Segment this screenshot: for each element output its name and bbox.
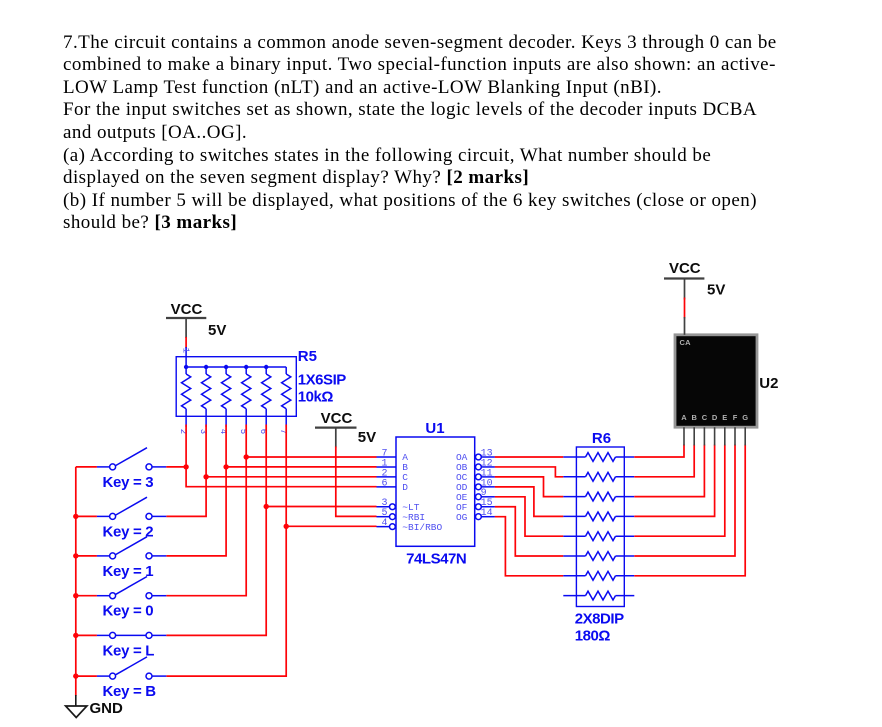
wire net C vertical: R5 pin3 down to Key2	[166, 425, 206, 517]
pin 12 output OB	[476, 464, 482, 470]
power symbol VCC (display anode)	[664, 260, 704, 278]
wire net A to U1 pin7	[246, 456, 376, 458]
wire Key3 to net D	[166, 466, 186, 468]
op-chip U1 74LS47N BCD to seven-segment decoder	[377, 437, 495, 546]
svg-text:Key = B: Key = B	[103, 683, 157, 700]
wire net A vertical: R5 pin5 down to Key0	[166, 425, 246, 596]
svg-text:E: E	[722, 413, 727, 422]
wire net B vertical: R5 pin4 down to Key1	[166, 425, 226, 556]
svg-text:R5: R5	[298, 348, 317, 365]
wire VCC to U1 pin5 ~RBI	[336, 447, 377, 517]
svg-text:5V: 5V	[707, 282, 725, 299]
svg-text:180Ω: 180Ω	[575, 628, 611, 645]
junction rail/key	[73, 514, 78, 519]
svg-text:R6: R6	[592, 430, 611, 447]
junction net nBI tap	[284, 524, 289, 529]
svg-text:GND: GND	[90, 700, 124, 717]
pin 7 input A	[377, 456, 397, 458]
resistor network R5 1X6SIP 10kOhm	[176, 347, 296, 434]
wire net nLT to U1 pin3	[266, 506, 376, 508]
wire R6 row 7 to display segment G	[634, 445, 745, 576]
switch Key = 0	[76, 577, 167, 599]
svg-text:D: D	[402, 482, 408, 493]
wire R6 row 5 to display segment E	[634, 445, 725, 537]
wire U1 OF to R6 row 6	[495, 507, 564, 556]
svg-text:1X6SIP: 1X6SIP	[298, 371, 347, 388]
svg-text:OG: OG	[456, 512, 468, 523]
wire VCC to R5 pin 1	[185, 337, 187, 348]
switch Key = L	[76, 632, 167, 638]
problem statement text	[63, 32, 803, 235]
switch Key = 1	[76, 537, 167, 559]
display pin segment	[683, 427, 685, 445]
wire net nLT vertical: R5 pin6 down to KeyL	[166, 425, 266, 636]
pin 15 output OF	[476, 504, 482, 510]
svg-text:D: D	[712, 413, 718, 422]
pin 1 input B	[377, 466, 397, 468]
wire U1 OC to R6 row 3	[495, 477, 564, 497]
power symbol VCC (above R5)	[166, 301, 206, 338]
switch Key = 3	[76, 448, 167, 470]
svg-text:5V: 5V	[208, 322, 226, 339]
svg-text:U2: U2	[759, 375, 778, 392]
svg-text:Key = 0: Key = 0	[103, 603, 154, 620]
display pin segment	[714, 427, 716, 445]
svg-text:6: 6	[381, 478, 387, 489]
display pin segment	[693, 427, 695, 445]
svg-text:A: A	[681, 413, 687, 422]
svg-text:5V: 5V	[358, 429, 376, 446]
junction rail/key	[73, 553, 78, 558]
pin 14 output OG	[476, 514, 482, 520]
wire net B to U1 pin1	[226, 466, 376, 468]
pin 3 input ~LT	[377, 506, 390, 508]
svg-text:U1: U1	[425, 420, 444, 437]
svg-text:VCC: VCC	[321, 410, 353, 427]
svg-text:Key = 3: Key = 3	[103, 474, 154, 491]
pin 6 input D	[377, 486, 397, 488]
junction net C tap	[203, 474, 208, 479]
svg-text:1: 1	[180, 348, 190, 353]
svg-text:CA: CA	[680, 338, 692, 347]
junction rail/key	[73, 633, 78, 638]
wire net nBI to U1 pin4	[286, 525, 376, 527]
svg-text:VCC: VCC	[171, 301, 203, 318]
resistor network R6 2X8DIP 180Ohm	[563, 447, 634, 607]
display pin segment	[703, 427, 705, 445]
svg-text:VCC: VCC	[669, 260, 701, 277]
svg-text:10kΩ: 10kΩ	[298, 388, 334, 405]
wire U1 OG to R6 row 7	[495, 517, 564, 576]
junction rail/key	[73, 593, 78, 598]
junction Key3/net D	[183, 464, 188, 469]
display pin segment	[734, 427, 736, 445]
wire R6 row 2 to display segment B	[634, 445, 694, 477]
wire ground rail	[75, 467, 77, 696]
pin 2 input C	[377, 476, 397, 478]
svg-text:74LS47N: 74LS47N	[406, 550, 466, 567]
svg-text:14: 14	[481, 508, 493, 519]
display pin CA (top)	[684, 279, 686, 300]
wire R6 row 3 to display segment C	[634, 445, 704, 497]
wire net D: R5 pin2 down to U1 pin6, junction with Key3	[186, 425, 376, 487]
pin 10 output OD	[476, 484, 482, 490]
display pin segment	[744, 427, 746, 445]
junction rail/key	[73, 673, 78, 678]
wire U1 OD to R6 row 4	[495, 487, 564, 517]
display pin segment	[724, 427, 726, 445]
svg-text:2X8DIP: 2X8DIP	[575, 611, 624, 628]
ground symbol GND	[66, 695, 123, 718]
svg-text:B: B	[691, 413, 697, 422]
svg-text:4: 4	[381, 518, 387, 529]
junction net nLT tap	[264, 504, 269, 509]
wire net nBI vertical: R5 pin7 down to KeyB	[166, 425, 286, 677]
power symbol VCC (for U1 RBI)	[315, 410, 357, 448]
svg-text:F: F	[733, 413, 738, 422]
switch Key = B	[76, 657, 167, 679]
junction net A tap	[244, 454, 249, 459]
pin 13 output OA	[476, 454, 482, 460]
switch Key = 2	[76, 497, 167, 519]
seven-segment display U2 (common anode)	[675, 279, 757, 446]
wire R6 row 6 to display segment F	[634, 445, 735, 557]
wire net C to U1 pin2	[206, 476, 376, 478]
wire R6 row 4 to display segment D	[634, 445, 714, 517]
wire R6 row 1 to display segment A	[634, 445, 684, 458]
wire U1 OB to R6 row 2	[495, 467, 564, 477]
junction net B tap	[223, 464, 228, 469]
pin 5 input ~RBI	[377, 516, 390, 518]
svg-text:G: G	[742, 413, 748, 422]
pin 9 output OE	[476, 494, 482, 500]
svg-text:~BI/RBO: ~BI/RBO	[402, 522, 442, 533]
wire U1 OA to R6 row 1	[495, 456, 564, 458]
pin 11 output OC	[476, 474, 482, 480]
wire U1 OE to R6 row 5	[495, 497, 564, 536]
svg-text:C: C	[702, 413, 708, 422]
pin 4 input ~BI/RBO	[377, 526, 390, 528]
